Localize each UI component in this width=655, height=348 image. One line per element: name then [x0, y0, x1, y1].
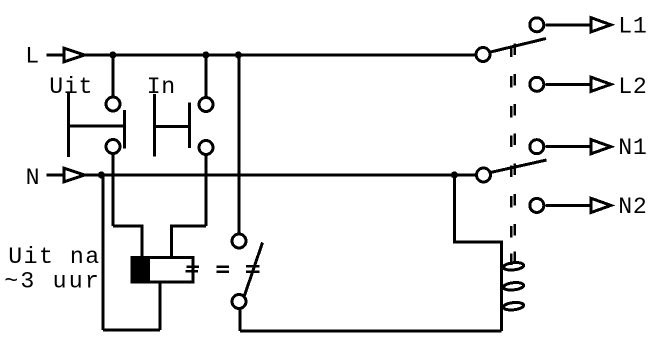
wire In bottom contact down across N [205, 156, 208, 227]
connector arrow L input [64, 48, 85, 62]
svg-text:In: In [147, 74, 176, 100]
wire N bus [85, 174, 476, 177]
svg-text:~3 uur: ~3 uur [4, 269, 101, 295]
svg-text:Uit: Uit [49, 74, 93, 100]
pushbutton In bridge [188, 103, 191, 149]
wire N junction 2 to coil [455, 175, 502, 259]
pushbutton Uit actuator stem [67, 93, 70, 158]
node L junction 3 [235, 51, 242, 58]
connector arrow L1 [591, 18, 611, 32]
coil winding loop 1 [503, 262, 524, 271]
pushbutton Uit actuator bar [69, 125, 125, 128]
timer relay delay mark on box edge [186, 267, 200, 272]
mechanical link dashed line [511, 44, 515, 266]
timer relay K1 filled block [132, 258, 150, 283]
output contact N1 [530, 140, 544, 154]
coil winding loop 3 [503, 302, 524, 311]
pushbutton In top contact [199, 98, 213, 112]
wire Uit bottom contact down across N [112, 154, 115, 226]
wire L2 [545, 83, 590, 86]
node N junction 1 [98, 171, 105, 178]
switch blade L [491, 39, 547, 53]
wire L input stub [47, 54, 64, 57]
node L junction 2 [202, 51, 209, 58]
wire N input stub [47, 174, 64, 177]
svg-text:N: N [26, 165, 41, 191]
wire L1 [545, 23, 590, 26]
svg-text:L1: L1 [618, 13, 647, 39]
pushbutton In actuator bar [154, 125, 189, 128]
switch common contact N [477, 168, 491, 182]
svg-text:Uit na: Uit na [8, 244, 101, 270]
pushbutton Uit bottom contact [106, 140, 120, 154]
wire jog to relay pin 1 [113, 226, 142, 258]
svg-text:L2: L2 [618, 74, 647, 100]
pushbutton In bottom contact [199, 141, 213, 155]
wire L to Uit top contact [112, 55, 115, 96]
pushbutton Uit bridge [123, 110, 126, 149]
pushbutton In actuator stem [153, 94, 156, 157]
wire L bus [85, 54, 475, 57]
node L junction 1 [109, 51, 116, 58]
wire timer bottom contact to rail [239, 309, 242, 331]
connector arrow N input [64, 168, 85, 182]
wire bottom rail right [240, 329, 502, 332]
wire N junction down to rail [102, 175, 105, 330]
wire bottom rail left [103, 329, 160, 332]
node N junction 2 [451, 171, 458, 178]
equals linkage mark [217, 267, 230, 272]
pushbutton Uit top contact [106, 97, 120, 111]
wire L junction 3 to timer contact [238, 55, 241, 233]
timer switch blade [245, 243, 263, 296]
connector arrow N1 [591, 140, 611, 154]
connector arrow N2 [591, 198, 611, 212]
timer switch top contact [232, 234, 246, 248]
timer relay K1 box [132, 258, 193, 283]
switch blade N [491, 160, 547, 173]
coil winding loop 2 [503, 282, 524, 291]
svg-text:N1: N1 [618, 135, 647, 161]
wire N1 [545, 145, 590, 148]
wire L to In top contact [205, 55, 208, 97]
svg-text:L: L [25, 44, 40, 70]
timer switch delay mark on blade [246, 266, 260, 271]
switch common contact L [476, 48, 490, 62]
wire coil core [500, 259, 503, 331]
svg-text:N2: N2 [618, 194, 647, 220]
output contact N2 [530, 198, 544, 212]
output contact L2 [530, 77, 544, 91]
wire N2 [545, 204, 590, 207]
wire jog to relay pin 2 [172, 226, 207, 258]
wire relay bottom pin [159, 282, 162, 330]
output contact L1 [530, 18, 544, 32]
connector arrow L2 [591, 77, 611, 91]
timer switch bottom contact [232, 295, 246, 309]
